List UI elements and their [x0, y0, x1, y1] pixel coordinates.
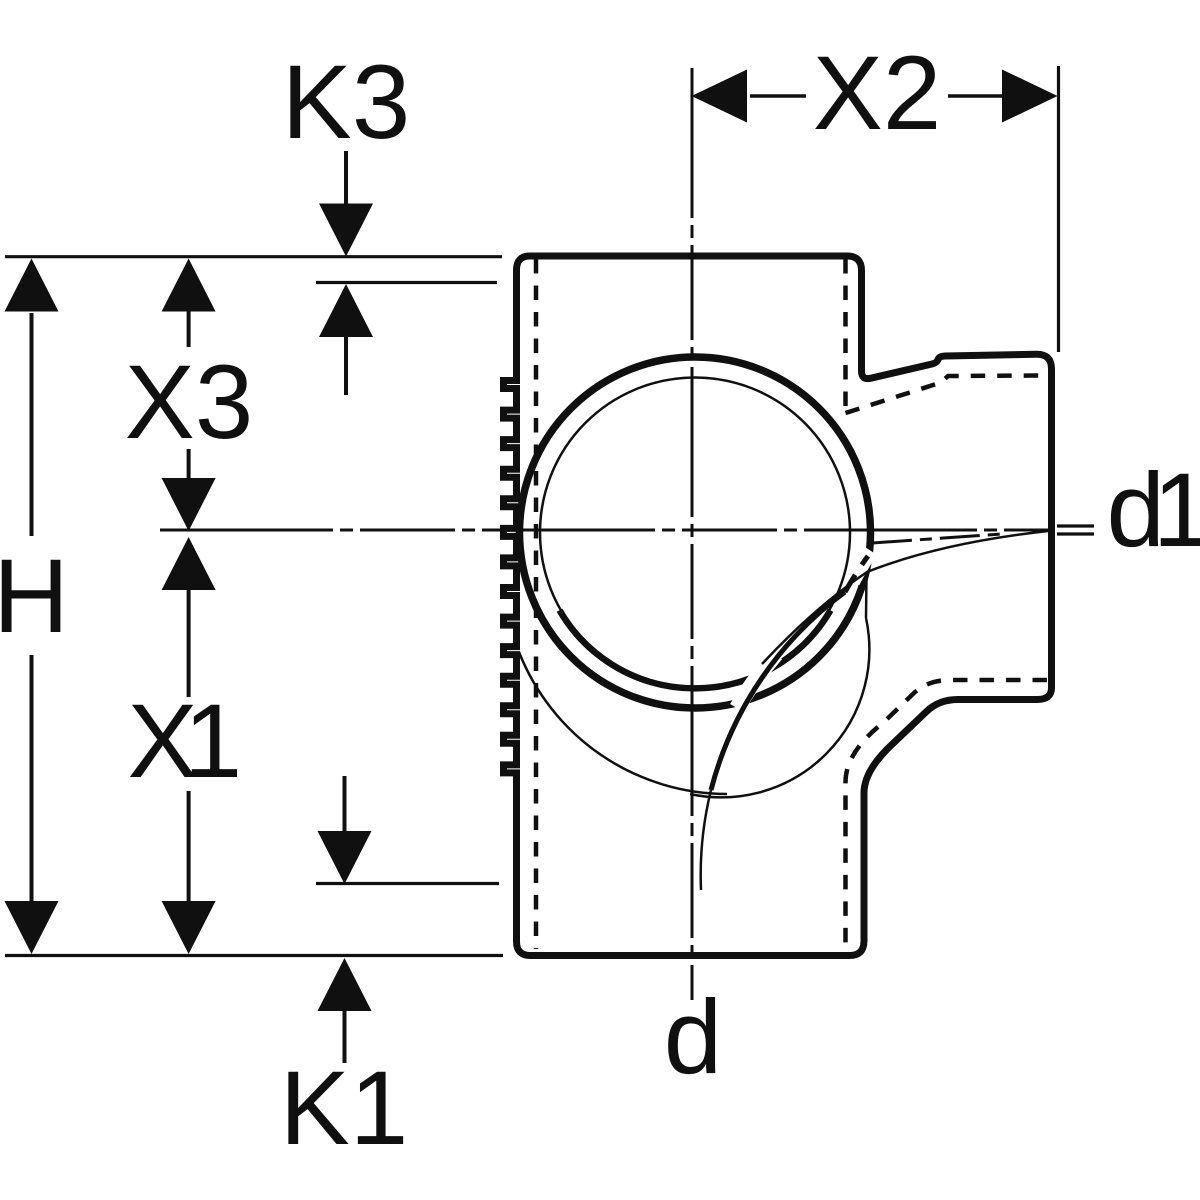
svg-text:K1: K1 — [280, 1050, 408, 1167]
H arrow down — [5, 901, 59, 954]
X3 arrow up — [162, 259, 216, 312]
X1 arrow down — [187, 791, 191, 901]
X1 arrow up — [162, 537, 216, 590]
X3 arrow down — [187, 449, 191, 479]
X2 dimension line — [750, 94, 806, 98]
branch sweep thin arc right lower — [690, 618, 869, 797]
K1 arrow up — [318, 958, 372, 1011]
X2 arrow left — [692, 70, 748, 123]
X2 arrow right — [1002, 70, 1058, 123]
branch sweep big thin arc left — [519, 652, 727, 794]
X2 extension line right — [1057, 66, 1060, 352]
socket opening outer circle — [520, 357, 871, 708]
svg-text:X2: X2 — [813, 35, 941, 152]
K3 lower extension line — [316, 281, 497, 284]
K3 arrow up — [319, 284, 373, 337]
branch axis slanted dash — [872, 534, 1002, 543]
top extension line — [5, 255, 502, 258]
svg-text:H: H — [0, 538, 69, 655]
branch sweep thin edge right — [865, 575, 868, 618]
white gap where sweep crosses socket arcs (upper) — [853, 551, 871, 582]
svg-text:X3: X3 — [125, 344, 253, 461]
d1 leader line lower — [1057, 532, 1094, 535]
bottom extension line — [5, 954, 503, 957]
branch sweep lens top thin curve — [762, 531, 1048, 664]
hidden socket depth line right upper (dashed) — [843, 259, 848, 411]
svg-text:K3: K3 — [282, 44, 410, 161]
vertical centerline — [691, 68, 694, 1000]
K3 arrow down — [344, 151, 348, 205]
socket bore lower thick arc — [560, 610, 831, 688]
horizontal centerline — [160, 529, 1054, 532]
d1 leader line upper — [1057, 524, 1094, 527]
hidden branch bore upper line (dashed) — [846, 376, 1042, 414]
svg-text:d: d — [664, 979, 722, 1096]
svg-text:1: 1 — [1153, 452, 1200, 569]
K1 upper extension line — [316, 882, 499, 885]
fitting body outline — [504, 256, 1052, 956]
svg-text:1: 1 — [184, 683, 242, 800]
H dimension line — [30, 313, 34, 536]
socket bore inner thin circle — [540, 378, 850, 688]
hidden branch bore lower line (dashed) — [846, 680, 1048, 948]
branch sweep main curve thick — [711, 592, 845, 790]
branch sweep main curve thick dashed — [845, 556, 868, 592]
H arrow up — [5, 259, 59, 312]
branch sweep main curve lower thin — [701, 790, 711, 890]
hidden socket depth line left (dashed) — [534, 259, 539, 949]
K1 arrow down — [343, 776, 347, 831]
white gap where sweep crosses socket arcs (lower) — [737, 654, 776, 708]
